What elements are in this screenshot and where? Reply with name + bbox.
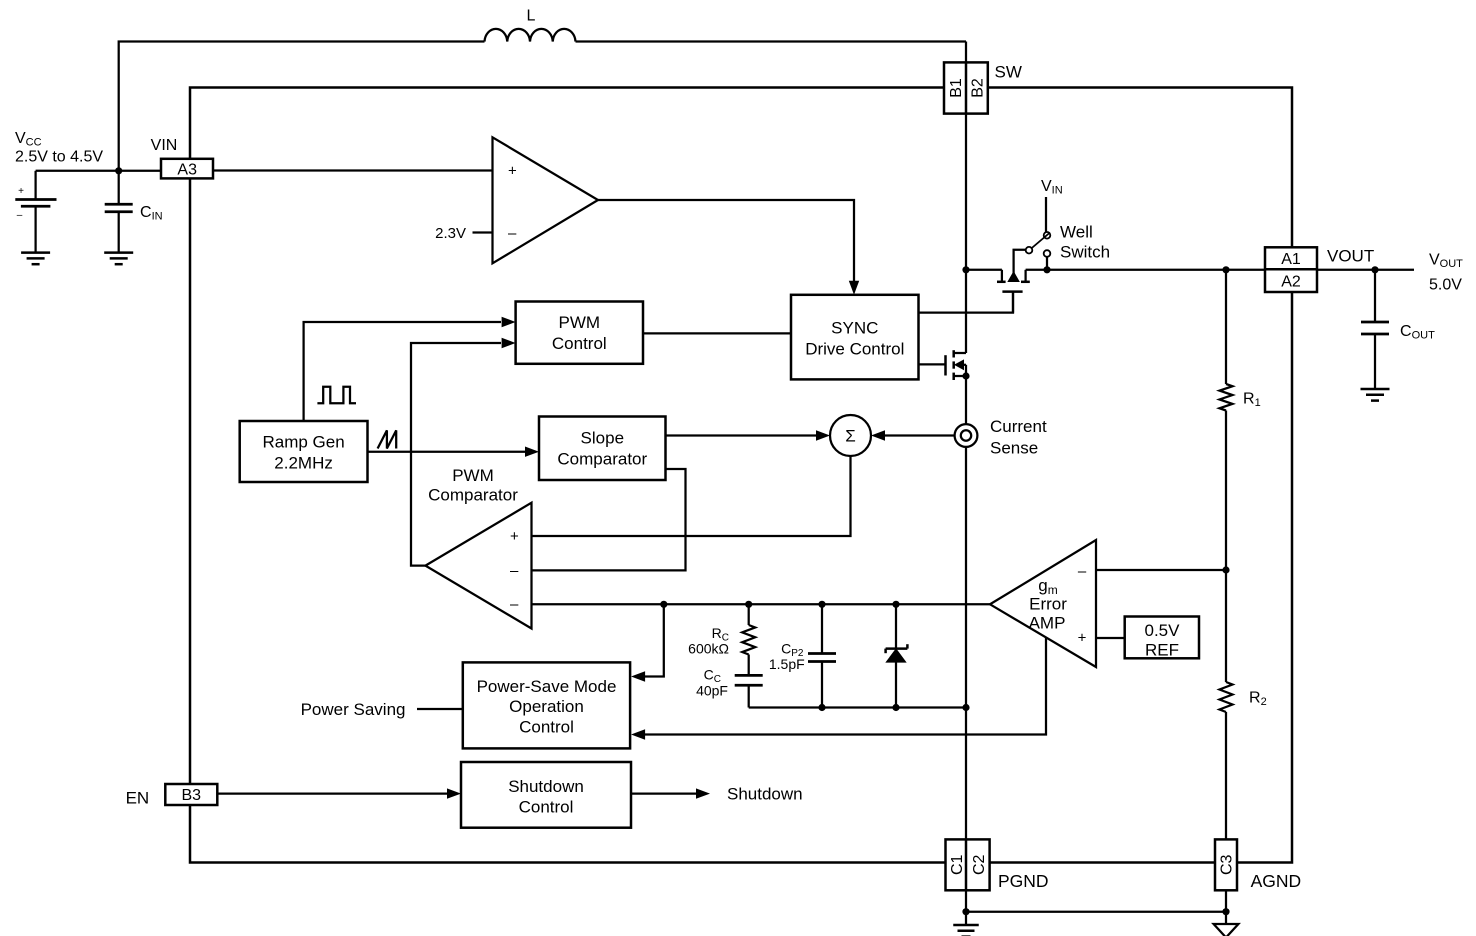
node VCC bbox=[115, 167, 122, 174]
wire comparator to SYNC bbox=[598, 200, 854, 282]
node FB bbox=[1222, 566, 1229, 573]
capacitor CC bbox=[735, 674, 763, 677]
wire VOUT external bbox=[1317, 269, 1414, 271]
svg-text:600kΩ: 600kΩ bbox=[688, 641, 729, 657]
svg-text:Shutdown: Shutdown bbox=[727, 785, 803, 804]
svg-text:EN: EN bbox=[126, 789, 150, 808]
svg-text:PWM: PWM bbox=[559, 313, 601, 332]
wire divider bottom bbox=[1225, 712, 1227, 839]
ramp symbol bbox=[378, 430, 397, 448]
svg-text:B2: B2 bbox=[969, 78, 986, 98]
clock symbol bbox=[317, 387, 356, 404]
wire error amp to power-save bbox=[645, 638, 1046, 735]
node comp c bbox=[818, 601, 825, 608]
op-amp PWM Comparator bbox=[425, 503, 531, 629]
wire current sense to summer bbox=[884, 434, 954, 436]
svg-text:–: – bbox=[510, 562, 519, 579]
capacitor CP2 bbox=[821, 604, 823, 653]
svg-text:PGND: PGND bbox=[998, 871, 1049, 891]
battery bbox=[34, 171, 36, 200]
svg-text:Ramp Gen: Ramp Gen bbox=[262, 432, 344, 451]
transistor Q1 (well switch PMOS) bbox=[966, 269, 1002, 271]
svg-text:Comparator: Comparator bbox=[557, 450, 647, 469]
ground AGND (signal) bbox=[1214, 924, 1239, 936]
svg-text:C1: C1 bbox=[949, 854, 966, 875]
node comp b bbox=[745, 601, 752, 608]
wire VCC rail bbox=[36, 170, 161, 172]
node AGND bbox=[1222, 908, 1229, 915]
svg-text:AGND: AGND bbox=[1251, 871, 1302, 891]
wire NMOS to current sense bbox=[965, 376, 967, 424]
svg-text:Power-Save Mode: Power-Save Mode bbox=[477, 677, 617, 696]
svg-text:SYNC: SYNC bbox=[831, 318, 878, 337]
resistor R1 bbox=[1220, 384, 1233, 411]
svg-text:Power Saving: Power Saving bbox=[301, 700, 406, 719]
wire summer to PWM comparator bbox=[532, 456, 851, 536]
svg-text:Sense: Sense bbox=[990, 439, 1038, 458]
IC boundary bbox=[190, 88, 1292, 863]
node SW-PMOS bbox=[962, 266, 969, 273]
ground CIN bbox=[104, 251, 133, 254]
pin A3 bbox=[161, 159, 213, 179]
svg-text:B3: B3 bbox=[182, 787, 202, 804]
svg-text:0.5V: 0.5V bbox=[1145, 621, 1181, 640]
svg-text:Switch: Switch bbox=[1060, 243, 1110, 262]
svg-text:1.5pF: 1.5pF bbox=[769, 656, 805, 672]
svg-text:SW: SW bbox=[995, 63, 1022, 82]
op-amp gm Error AMP bbox=[990, 540, 1096, 667]
comparator U1 (2.3V UVLO) bbox=[493, 137, 599, 263]
svg-text:Current: Current bbox=[990, 417, 1047, 436]
node rail c bbox=[962, 704, 969, 711]
transistor Q2 (low-side NMOS) bbox=[944, 355, 947, 375]
node rail a bbox=[818, 704, 825, 711]
wire COMP rail bbox=[532, 603, 991, 605]
current sense sensor bbox=[955, 424, 978, 447]
wire SYNC to PMOS gate bbox=[919, 292, 1014, 313]
resistor R2 bbox=[1220, 682, 1233, 712]
wire power saving input bbox=[417, 708, 463, 710]
block SYNC Drive Control bbox=[791, 295, 919, 380]
wire PWM comparator to PWM Control bbox=[411, 343, 501, 566]
svg-text:+: + bbox=[18, 186, 24, 197]
wire divider mid bbox=[1225, 411, 1227, 683]
pin B3 bbox=[165, 784, 217, 805]
node comp d bbox=[892, 601, 899, 608]
capacitor CIN bbox=[118, 171, 120, 204]
wire error amp ref input bbox=[1096, 637, 1125, 639]
block 0.5V REF bbox=[1125, 617, 1199, 659]
svg-text:VIN: VIN bbox=[151, 137, 178, 154]
wire divider top bbox=[1225, 270, 1227, 384]
svg-text:2.5V to 4.5V: 2.5V to 4.5V bbox=[15, 148, 103, 165]
summer node bbox=[830, 415, 871, 456]
wire comp to power-save bbox=[645, 604, 664, 676]
svg-text:Shutdown: Shutdown bbox=[508, 777, 584, 796]
node PGND bbox=[962, 908, 969, 915]
svg-text:Control: Control bbox=[519, 718, 574, 737]
ground PGND bbox=[953, 924, 979, 927]
wire current sense to PGND pin bbox=[965, 447, 967, 840]
node R1 tap bbox=[1222, 266, 1229, 273]
svg-text:B1: B1 bbox=[948, 78, 965, 98]
svg-text:Σ: Σ bbox=[845, 427, 856, 446]
wire Ramp Gen to Slope Comparator bbox=[368, 451, 526, 453]
wire ground rail bbox=[966, 911, 1226, 913]
wire VCC to inductor bbox=[119, 42, 485, 171]
node comp a bbox=[660, 601, 667, 608]
svg-text:2.3V: 2.3V bbox=[435, 225, 466, 242]
wire ramp to PWM Control bbox=[304, 322, 501, 421]
svg-text:Drive Control: Drive Control bbox=[805, 339, 904, 358]
resistor RC bbox=[748, 604, 750, 625]
svg-text:VOUT: VOUT bbox=[1327, 247, 1374, 266]
svg-text:+: + bbox=[510, 528, 519, 545]
block Power-Save Mode Operation Control bbox=[463, 662, 630, 748]
svg-text:+: + bbox=[508, 162, 517, 179]
wire AGND stem bbox=[1225, 890, 1227, 924]
node NMOS source bbox=[962, 372, 969, 379]
wire Slope Comparator to summer bbox=[666, 434, 827, 436]
block Slope Comparator bbox=[539, 417, 666, 481]
svg-text:2.2MHz: 2.2MHz bbox=[274, 453, 333, 472]
capacitor COUT bbox=[1374, 270, 1376, 322]
svg-text:40pF: 40pF bbox=[696, 683, 728, 699]
block Shutdown Control bbox=[461, 762, 631, 828]
svg-text:–: – bbox=[1078, 563, 1087, 580]
svg-text:PWM: PWM bbox=[452, 466, 494, 485]
pin C3 bbox=[1215, 839, 1237, 890]
wire Slope Comparator to PWM comparator bbox=[532, 469, 686, 570]
svg-text:A3: A3 bbox=[177, 161, 197, 178]
svg-text:Error: Error bbox=[1029, 595, 1067, 614]
node COUT tap bbox=[1371, 266, 1378, 273]
wire comp bottom rail bbox=[749, 706, 966, 708]
wire shutdown output bbox=[631, 792, 696, 794]
wire VOUT rail bbox=[1047, 269, 1265, 271]
svg-text:A2: A2 bbox=[1281, 273, 1301, 290]
wire VIN stub bbox=[1045, 197, 1047, 232]
wire PWM Control to SYNC bbox=[643, 332, 791, 334]
wire 2.3V stub bbox=[473, 231, 493, 233]
wire inductor to SW pin bbox=[576, 40, 967, 42]
svg-text:C3: C3 bbox=[1219, 854, 1236, 875]
wire error amp FB input bbox=[1096, 569, 1226, 571]
ground battery bbox=[21, 251, 50, 254]
svg-text:A1: A1 bbox=[1281, 251, 1301, 268]
wire SYNC to NMOS gate bbox=[919, 363, 946, 365]
svg-text:+: + bbox=[1078, 629, 1087, 646]
node rail b bbox=[892, 704, 899, 711]
wire EN to shutdown control bbox=[217, 792, 447, 794]
svg-text:AMP: AMP bbox=[1029, 614, 1066, 633]
well switch bbox=[1014, 250, 1026, 274]
inductor L bbox=[485, 29, 576, 42]
block Ramp Gen 2.2MHz bbox=[240, 421, 368, 482]
svg-text:–: – bbox=[508, 225, 517, 242]
svg-text:C2: C2 bbox=[971, 854, 988, 875]
diode D1 (zener clamp) bbox=[895, 604, 897, 648]
wire PGND stem bbox=[965, 890, 967, 925]
svg-text:L: L bbox=[527, 7, 536, 24]
node PMOS source bbox=[1043, 266, 1050, 273]
svg-text:Control: Control bbox=[552, 334, 607, 353]
pin A1 A2 bbox=[1265, 247, 1317, 292]
block PWM Control bbox=[516, 302, 643, 364]
pin B1 B2 bbox=[944, 62, 988, 113]
svg-text:Operation: Operation bbox=[509, 697, 584, 716]
svg-text:Control: Control bbox=[519, 798, 574, 817]
wire SW internal bbox=[965, 42, 967, 354]
svg-text:Well: Well bbox=[1060, 223, 1093, 242]
svg-text:Slope: Slope bbox=[581, 429, 624, 448]
svg-text:–: – bbox=[510, 596, 519, 613]
svg-text:5.0V: 5.0V bbox=[1429, 277, 1462, 294]
ground COUT bbox=[1361, 388, 1390, 391]
svg-text:–: – bbox=[17, 210, 23, 221]
wire VIN to comparator bbox=[213, 169, 493, 171]
svg-text:Comparator: Comparator bbox=[428, 486, 518, 505]
pin C1 C2 bbox=[946, 839, 990, 890]
svg-text:REF: REF bbox=[1145, 640, 1179, 659]
